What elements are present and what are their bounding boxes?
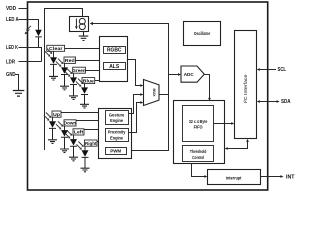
svg-text:RGBC: RGBC <box>107 48 122 54</box>
pin LDR <box>6 60 42 66</box>
pin LED A <box>6 17 39 30</box>
photodiode Red <box>56 59 68 87</box>
photodiode Up <box>44 113 56 140</box>
svg-text:Control: Control <box>192 155 204 160</box>
ground (GND pin) <box>13 91 25 97</box>
LED emission arrows <box>25 26 31 34</box>
LED driver U1 <box>70 17 89 32</box>
svg-text:Left: Left <box>74 130 84 135</box>
wire RGBC block to MUX <box>128 60 144 87</box>
photodiode Down <box>56 121 68 149</box>
svg-text:Right: Right <box>85 141 97 146</box>
label Left <box>73 129 84 135</box>
svg-text:I²C Interface: I²C Interface <box>243 74 248 104</box>
svg-text:Engine: Engine <box>110 118 123 123</box>
ground (Red photodiode) <box>60 86 69 90</box>
svg-text:ADC: ADC <box>184 72 195 77</box>
pin GND <box>6 72 19 91</box>
wire Threshold block to Interrupt <box>192 164 208 178</box>
pin SDA <box>257 99 291 105</box>
svg-text:VDD: VDD <box>6 6 16 12</box>
label Down <box>64 120 77 126</box>
PWM box <box>106 148 127 155</box>
wire Proximity Engine to MUX <box>129 101 144 132</box>
Proximity Engine box <box>106 129 129 142</box>
pin INT <box>261 174 296 180</box>
ground (Blue photodiode) <box>80 104 89 108</box>
svg-text:FIFO: FIFO <box>194 125 203 130</box>
photodiode Blue <box>76 79 88 105</box>
ground (Right photodiode) <box>81 168 90 172</box>
pin VDD <box>6 6 28 12</box>
pin LED K <box>6 45 42 61</box>
RGBC box <box>104 47 126 54</box>
wire Clear photodiode to RGBC block <box>54 49 100 58</box>
Oscillator box <box>184 22 221 46</box>
ADC <box>181 66 204 82</box>
ground (Down photodiode) <box>60 149 69 153</box>
svg-text:Red: Red <box>65 58 75 63</box>
photodiode Green <box>65 69 77 96</box>
svg-text:ALS: ALS <box>109 64 120 70</box>
I2C interface box <box>235 31 257 139</box>
wire PWM to LED driver <box>90 22 169 151</box>
label Green <box>72 67 86 73</box>
svg-text:GND: GND <box>6 72 16 78</box>
wire to ADC input <box>169 73 182 76</box>
label Clear <box>47 45 65 51</box>
svg-text:Oscillator: Oscillator <box>194 31 211 37</box>
FIFO box <box>183 106 214 142</box>
label Red <box>64 57 76 63</box>
Interrupt box <box>208 170 261 185</box>
wire Left photodiode to gesture block <box>74 130 99 140</box>
svg-text:Down: Down <box>64 121 77 126</box>
svg-text:Green: Green <box>72 68 86 73</box>
pin SCL <box>257 67 287 73</box>
wire Gesture Engine to MUX <box>129 93 144 113</box>
photodiode Right <box>76 142 88 169</box>
ground (Up photodiode) <box>48 140 57 144</box>
svg-text:32 x 4 Byte: 32 x 4 Byte <box>189 119 208 124</box>
wire Threshold to I2C <box>225 139 249 150</box>
svg-text:Interrupt: Interrupt <box>226 175 242 181</box>
label Blue <box>82 78 95 84</box>
FIFO/threshold block box <box>174 101 225 164</box>
RGBC/ALS block box <box>100 37 128 82</box>
label Right <box>85 140 98 146</box>
wire Blue photodiode to RGBC block <box>85 81 100 88</box>
wire Down photodiode to gesture block <box>65 121 99 131</box>
wire Up photodiode to gesture block <box>53 113 99 122</box>
Gesture Engine box <box>106 111 129 125</box>
ALS box <box>104 63 126 71</box>
svg-text:LED A: LED A <box>6 17 19 23</box>
wire ADC to FIFO <box>204 75 211 101</box>
svg-text:PWM: PWM <box>110 149 121 154</box>
svg-text:Up: Up <box>53 112 60 117</box>
ground (Clear photodiode) <box>49 76 58 80</box>
gesture block box <box>99 109 132 159</box>
svg-text:LED K: LED K <box>6 45 18 51</box>
svg-text:INT: INT <box>286 174 295 180</box>
outer border frame <box>28 2 268 190</box>
ground (LED driver) <box>79 32 89 41</box>
photodiode Left <box>65 130 77 157</box>
wire Red photodiode to RGBC block <box>65 61 100 68</box>
svg-text:MUX: MUX <box>152 89 156 98</box>
svg-text:SCL: SCL <box>278 67 287 73</box>
wire Green photodiode to RGBC block <box>74 71 100 78</box>
svg-text:Clear: Clear <box>49 46 63 51</box>
ground (Green photodiode) <box>69 96 78 100</box>
IR LED D1 <box>35 30 42 48</box>
svg-text:Threshold: Threshold <box>190 149 207 154</box>
svg-text:Blue: Blue <box>83 78 94 83</box>
svg-text:LDR: LDR <box>6 60 15 66</box>
svg-text:Gesture: Gesture <box>109 112 125 117</box>
mux MUX <box>144 80 160 106</box>
wire Right photodiode to gesture block <box>85 142 99 151</box>
svg-text:Proximity: Proximity <box>108 130 126 135</box>
svg-text:Engine: Engine <box>110 135 123 140</box>
wire FIFO to I2C <box>214 122 235 125</box>
svg-text:SDA: SDA <box>281 99 291 105</box>
photodiode Clear <box>45 49 57 77</box>
chip edge / VDD rail wire <box>45 9 83 151</box>
wire MUX output <box>159 94 169 96</box>
ground (Left photodiode) <box>69 157 78 161</box>
Threshold Control box <box>183 146 214 162</box>
label Up <box>52 111 61 117</box>
